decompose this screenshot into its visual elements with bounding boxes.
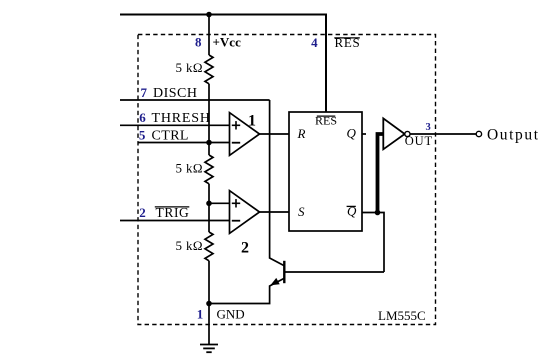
svg-text:Q: Q	[347, 204, 357, 219]
svg-text:Output: Output	[487, 127, 540, 144]
svg-text:3: 3	[425, 122, 430, 133]
svg-text:5 kΩ: 5 kΩ	[175, 161, 203, 176]
svg-text:CTRL: CTRL	[152, 129, 189, 144]
svg-text:1: 1	[197, 307, 204, 322]
svg-text:7: 7	[141, 85, 148, 100]
svg-text:GND: GND	[217, 307, 245, 322]
svg-text:5 kΩ: 5 kΩ	[175, 238, 203, 253]
svg-text:1: 1	[248, 113, 256, 130]
svg-text:4: 4	[311, 35, 318, 50]
svg-text:6: 6	[139, 110, 146, 125]
svg-text:R: R	[297, 126, 306, 141]
svg-text:2: 2	[139, 205, 146, 220]
svg-text:LM555C: LM555C	[378, 308, 426, 323]
svg-text:RES: RES	[335, 35, 361, 50]
svg-text:TRIG: TRIG	[156, 205, 190, 220]
svg-text:8: 8	[195, 35, 202, 50]
svg-text:RES: RES	[315, 114, 337, 128]
svg-text:OUT: OUT	[405, 134, 433, 148]
svg-text:5 kΩ: 5 kΩ	[175, 60, 203, 75]
svg-text:5: 5	[139, 128, 146, 143]
svg-text:S: S	[298, 204, 305, 219]
svg-text:2: 2	[241, 240, 249, 257]
svg-text:DISCH: DISCH	[153, 86, 198, 101]
svg-text:+Vcc: +Vcc	[213, 35, 242, 50]
svg-text:THRESH: THRESH	[152, 111, 211, 126]
svg-text:Q: Q	[347, 126, 357, 141]
